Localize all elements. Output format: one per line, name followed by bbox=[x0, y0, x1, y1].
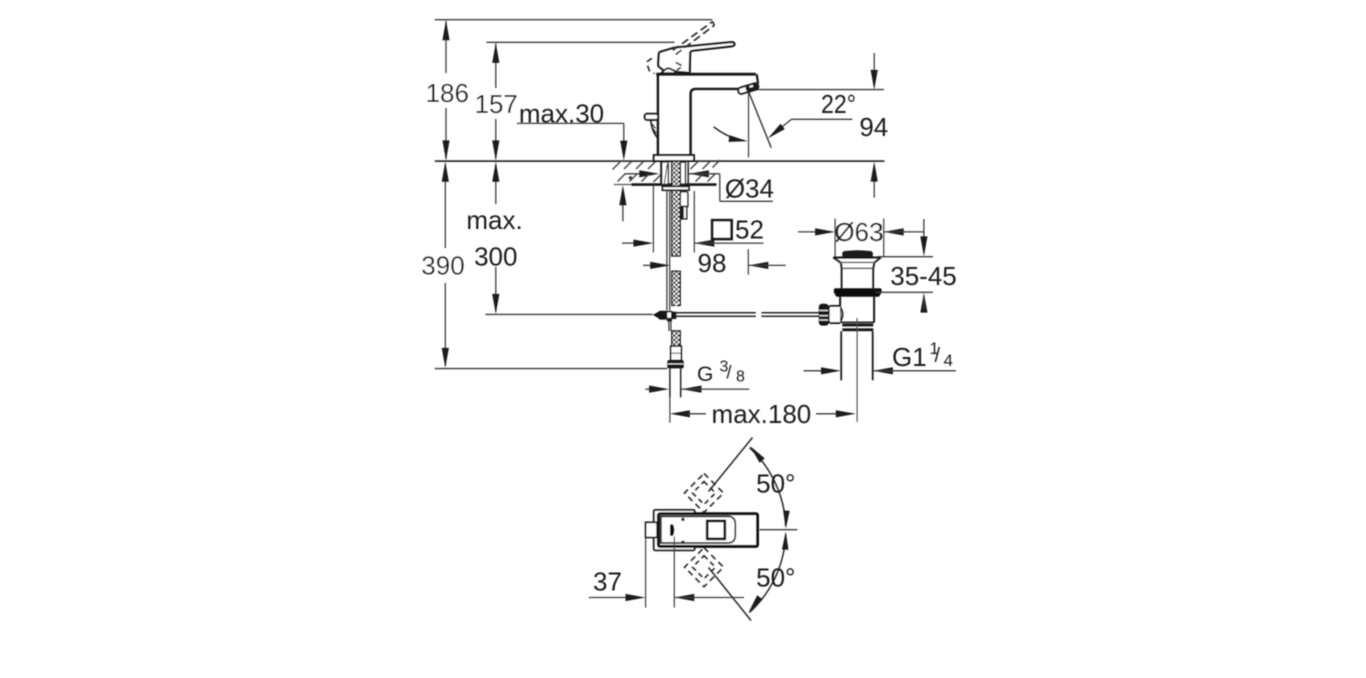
lower dashed handle position squares bbox=[685, 548, 724, 587]
svg-text:390: 390 bbox=[421, 251, 464, 281]
svg-text:Ø34: Ø34 bbox=[725, 174, 774, 204]
flexible hose fitting bbox=[671, 346, 682, 360]
svg-text:max.: max. bbox=[466, 205, 522, 235]
dimension 157 vertical line with label bbox=[475, 43, 518, 160]
faucet lever handle (solid position) bbox=[658, 42, 734, 73]
svg-text:8: 8 bbox=[736, 368, 745, 385]
dimension 22 degree leader and label bbox=[768, 89, 856, 138]
pop-up waste pull knob on faucet bbox=[645, 114, 658, 138]
svg-text:98: 98 bbox=[698, 248, 727, 278]
svg-text:Ø63: Ø63 bbox=[834, 217, 883, 247]
pop-up rod guide housing bbox=[680, 192, 688, 219]
top view aerator square bbox=[707, 521, 725, 539]
drain rubber gasket bbox=[834, 288, 882, 296]
counter hole edges bbox=[661, 161, 688, 184]
svg-text:4: 4 bbox=[944, 351, 953, 370]
dimension 186 vertical line with label bbox=[426, 20, 469, 160]
dimension &#216;63 with label bbox=[798, 217, 924, 257]
top view cartridge marker bbox=[670, 524, 674, 536]
top view faucet body bbox=[658, 514, 757, 547]
drain rod socket bbox=[829, 306, 843, 323]
dimension 186 top reference line bbox=[435, 19, 713, 21]
faucet base plate bbox=[654, 155, 694, 161]
pop-up rod junction clamp bbox=[653, 311, 676, 322]
mounting shank parts in counter hole bbox=[662, 162, 686, 184]
dimension square-52 with label bbox=[622, 186, 764, 253]
svg-text:G1: G1 bbox=[892, 342, 927, 372]
svg-text:G: G bbox=[697, 363, 713, 386]
drain top flange bbox=[833, 258, 881, 269]
flexible connection hose bbox=[670, 368, 681, 397]
svg-text:max.30: max.30 bbox=[519, 99, 604, 129]
top view left tab bbox=[646, 522, 658, 537]
drain tailpipe bbox=[841, 331, 873, 380]
top view lever outline bbox=[661, 516, 735, 543]
drain plug cap bbox=[842, 250, 873, 256]
lower threaded section bbox=[672, 331, 680, 346]
top view centerline bbox=[760, 529, 798, 531]
upper 50 degree label bbox=[756, 469, 795, 499]
svg-text:max.180: max.180 bbox=[712, 399, 812, 429]
dimension 94 vertical with label bbox=[859, 53, 888, 198]
svg-text:/: / bbox=[935, 345, 941, 367]
drain centerline bbox=[856, 318, 858, 422]
drain body bbox=[840, 297, 874, 323]
drain rod knurled knob bbox=[819, 304, 829, 326]
upper 50 degree arc with arrows bbox=[750, 446, 790, 529]
rod segment below clamp bbox=[669, 321, 671, 331]
lower 50 degree arc with arrows bbox=[749, 532, 789, 613]
svg-text:300: 300 bbox=[474, 242, 517, 272]
dimension 37 with label bbox=[589, 537, 744, 608]
svg-text:22°: 22° bbox=[821, 89, 856, 119]
dimension 390 vertical line with label bbox=[421, 162, 464, 368]
drain neck bbox=[842, 268, 874, 288]
svg-text:52: 52 bbox=[735, 214, 764, 244]
lower 50 degree ray bbox=[709, 568, 752, 621]
svg-text:37: 37 bbox=[593, 566, 622, 596]
dimension 94 top reference line (spout outlet level) bbox=[755, 89, 884, 91]
countertop line bbox=[435, 160, 885, 162]
water stream line at 22 degrees bbox=[749, 92, 772, 148]
hose connection nut bbox=[667, 360, 683, 368]
spout swivel arc arrow bbox=[714, 127, 748, 142]
dimension G-3/8 with label bbox=[645, 358, 749, 392]
upper 50 degree ray bbox=[709, 438, 753, 492]
svg-text:/: / bbox=[727, 363, 732, 383]
svg-text:50°: 50° bbox=[756, 469, 795, 499]
dimension 98 with label bbox=[643, 248, 786, 278]
top view base square bbox=[654, 510, 695, 550]
drain tailpipe rings bbox=[842, 324, 873, 332]
countertop bottom line thin left part bbox=[614, 184, 632, 186]
pop-up pull rod below counter bbox=[667, 190, 670, 310]
lower 50 degree label bbox=[756, 563, 795, 593]
svg-text:50°: 50° bbox=[756, 563, 795, 593]
dimension 35-45 with label bbox=[876, 219, 957, 313]
countertop cross-section hatching bbox=[613, 160, 721, 182]
spout aerator outlet bbox=[738, 83, 760, 95]
390 bottom reference line bbox=[435, 368, 668, 370]
svg-text:94: 94 bbox=[859, 112, 888, 142]
countertop bottom line bbox=[632, 183, 717, 186]
dimension max.300 vertical line with label bbox=[466, 162, 522, 314]
top view screw dots bbox=[681, 518, 684, 544]
upper dashed handle position squares bbox=[685, 474, 724, 513]
threaded mounting rod (hatched) bbox=[672, 161, 680, 306]
dimension G1-1/4 with label bbox=[804, 339, 956, 375]
washer under counter bbox=[662, 186, 689, 190]
faucet lever handle raised (dashed position) bbox=[646, 22, 714, 74]
max.300 bottom reference line bbox=[486, 313, 653, 315]
dimension max.180 with label bbox=[670, 397, 856, 429]
svg-text:35-45: 35-45 bbox=[890, 261, 957, 291]
dimension &#216;34 leader and label bbox=[624, 170, 774, 203]
faucet body and spout outline bbox=[656, 74, 758, 155]
svg-text:186: 186 bbox=[426, 78, 469, 108]
dimension 157 reference line bbox=[487, 41, 675, 43]
aerator vertical extension line bbox=[748, 92, 750, 157]
dimension max.30 label and arrows (counter thickness) bbox=[517, 99, 627, 222]
horizontal pop-up linkage rod bbox=[676, 313, 819, 316]
svg-text:157: 157 bbox=[475, 89, 518, 119]
